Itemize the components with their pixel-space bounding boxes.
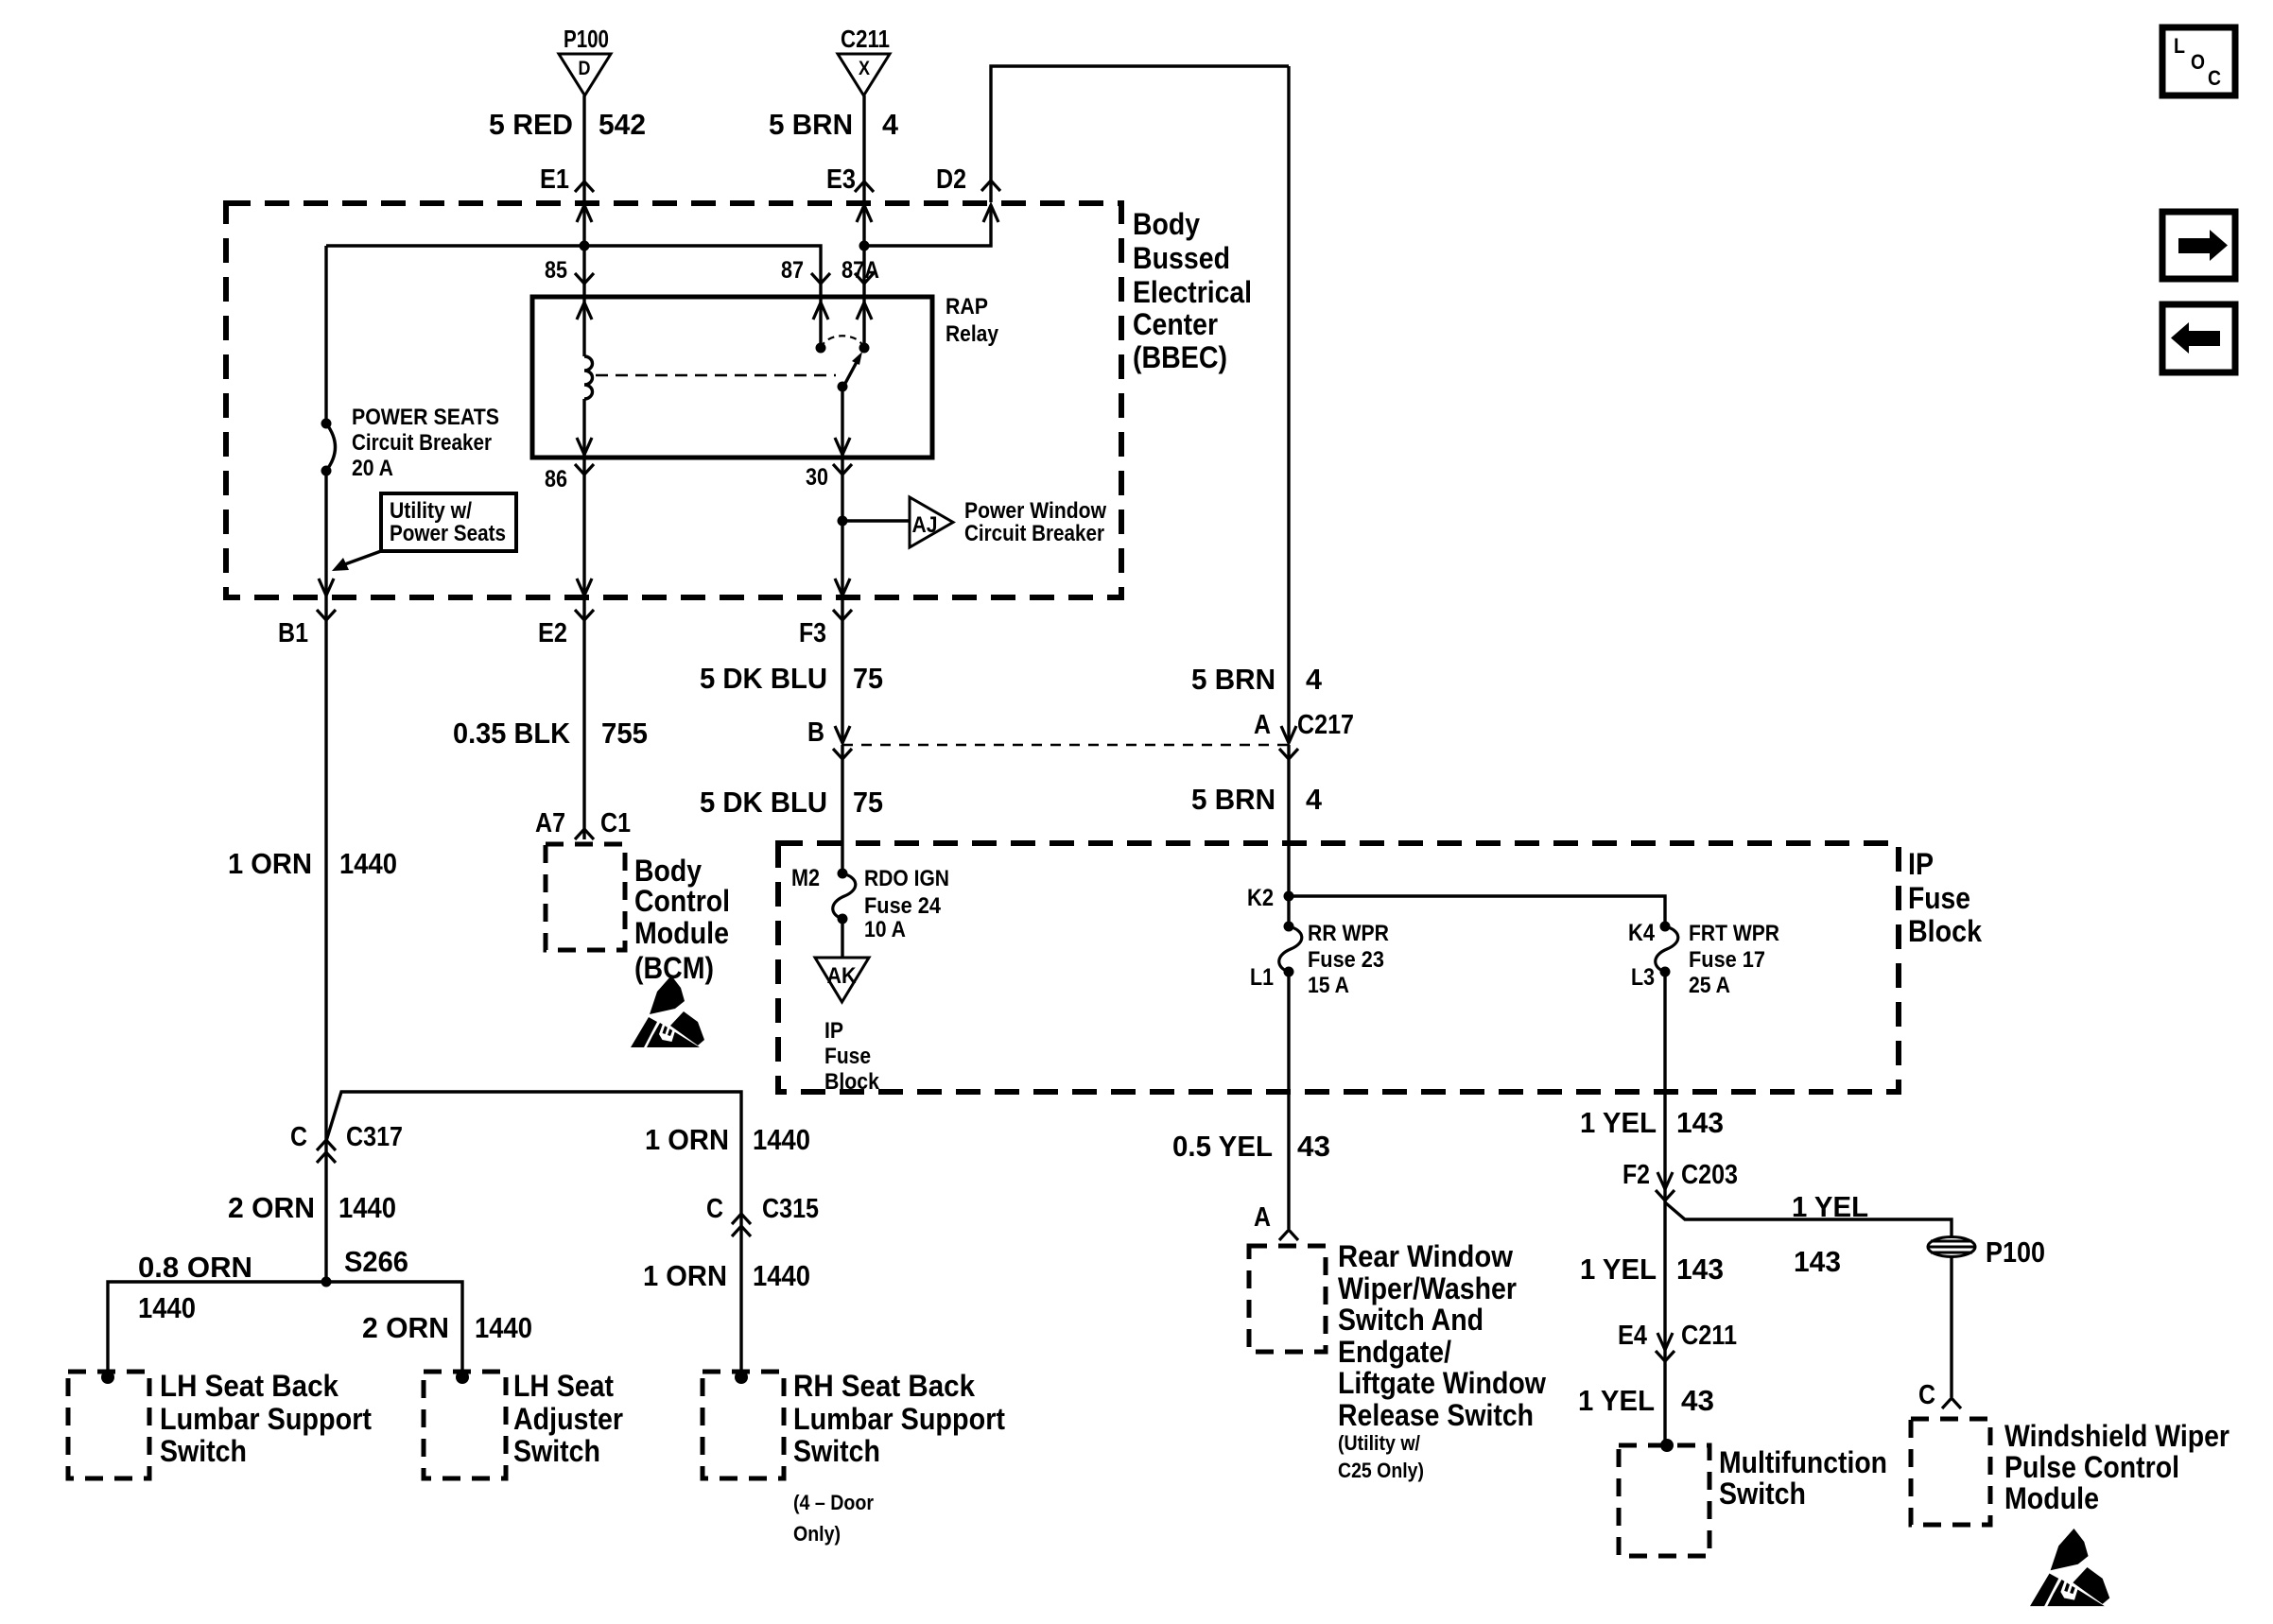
svg-text:Lumbar Support: Lumbar Support [160,1402,372,1436]
relay internal dashed link coil to arm [596,374,836,377]
wire C317 down to S266 [324,1140,327,1282]
wire B down into IP fuse block [841,745,843,873]
svg-text:RDO IGN: RDO IGN [864,866,949,891]
svg-text:C1: C1 [600,808,631,838]
svg-text:P100: P100 [564,25,609,53]
svg-text:Rear Window: Rear Window [1338,1239,1513,1273]
svg-text:C: C [1918,1380,1935,1410]
svg-text:Module: Module [634,916,729,950]
svg-text:E2: E2 [538,618,567,648]
svg-text:1 ORN: 1 ORN [645,1123,729,1156]
node junction at E1/85 [580,241,590,251]
svg-text:Module: Module [2004,1481,2099,1515]
ground stud P100 [1928,1237,1975,1257]
wire E3 down to 87A [862,203,865,297]
svg-text:C: C [2208,66,2221,90]
svg-text:E4: E4 [1618,1321,1647,1351]
svg-text:85: 85 [545,257,567,284]
svg-text:IP: IP [824,1018,843,1044]
svg-text:Only): Only) [793,1522,841,1546]
svg-text:1440: 1440 [753,1123,810,1156]
svg-text:0.35 BLK: 0.35 BLK [453,717,571,750]
svg-text:L: L [2174,34,2185,58]
svg-text:20 A: 20 A [352,456,393,481]
svg-text:LH Seat: LH Seat [513,1369,614,1403]
svg-text:Switch: Switch [1719,1477,1806,1511]
svg-text:143: 143 [1676,1106,1724,1139]
svg-text:D: D [579,58,591,79]
svg-text:43: 43 [1681,1384,1714,1417]
RH Seat Back Lumbar Support Switch box [703,1372,784,1478]
svg-text:AJ: AJ [912,512,938,538]
svg-text:25 A: 25 A [1689,973,1730,998]
wire FRT WPR fuse down to F2 [1663,972,1666,1181]
RAP relay box [532,297,932,458]
svg-text:IP: IP [1908,847,1934,881]
svg-text:C217: C217 [1297,710,1354,740]
svg-text:2 ORN: 2 ORN [228,1191,315,1224]
ESD symbol (windshield module) [2030,1529,2109,1606]
wire K2 over to K4 [1289,896,1665,926]
svg-text:Multifunction: Multifunction [1719,1445,1887,1479]
BBEC dashed box [226,203,1121,597]
wire P100 to E1 [582,95,585,202]
svg-text:K4: K4 [1628,920,1655,946]
svg-text:Bussed: Bussed [1133,241,1230,275]
svg-text:E1: E1 [540,164,569,195]
svg-text:1440: 1440 [138,1291,196,1324]
svg-text:O: O [2191,50,2205,74]
svg-text:Windshield Wiper: Windshield Wiper [2004,1419,2230,1453]
svg-text:Switch: Switch [160,1434,247,1468]
svg-text:L3: L3 [1631,964,1655,991]
svg-text:C211: C211 [841,25,890,53]
svg-text:Endgate/: Endgate/ [1338,1335,1451,1369]
svg-text:(BBEC): (BBEC) [1133,340,1227,374]
fuse FRT WPR Fuse 17 25A [1660,922,1671,932]
wire E2 down to BCM [582,597,585,839]
svg-text:K2: K2 [1247,885,1274,911]
Rear Window Wiper/Washer Switch box [1249,1246,1326,1352]
svg-text:D2: D2 [936,164,966,195]
wire S266 left to LH seat back lumbar switch [108,1282,326,1377]
svg-text:P100: P100 [1986,1235,2045,1269]
svg-text:Lumbar Support: Lumbar Support [793,1402,1005,1436]
svg-text:10 A: 10 A [864,917,906,942]
svg-text:Center: Center [1133,307,1218,341]
svg-text:Fuse: Fuse [1908,881,1970,915]
svg-text:C315: C315 [762,1194,819,1224]
svg-text:0.8 ORN: 0.8 ORN [138,1251,252,1284]
svg-text:Wiper/Washer: Wiper/Washer [1338,1271,1517,1305]
svg-text:1 ORN: 1 ORN [643,1259,727,1292]
svg-text:30: 30 [806,464,828,491]
svg-text:Switch And: Switch And [1338,1303,1484,1337]
svg-text:A: A [1254,710,1271,740]
Utility w/ Power Seats callout box [381,493,516,551]
svg-text:X: X [859,58,870,79]
svg-text:1440: 1440 [338,1191,396,1224]
svg-text:1440: 1440 [753,1259,810,1292]
svg-text:Fuse 17: Fuse 17 [1689,947,1765,973]
svg-text:C203: C203 [1681,1160,1738,1190]
wire P100 ground down to windshield module [1950,1256,1952,1397]
svg-text:1 YEL: 1 YEL [1792,1190,1868,1223]
svg-text:1 YEL: 1 YEL [1578,1384,1655,1417]
svg-text:B: B [807,717,824,748]
node junction to AJ [838,516,848,527]
svg-text:15 A: 15 A [1308,973,1349,998]
relay coil wire to bottom [582,399,585,458]
svg-text:Switch: Switch [793,1434,880,1468]
svg-text:4: 4 [882,108,899,141]
svg-text:Fuse 23: Fuse 23 [1308,947,1384,973]
wire to AJ triangle [842,519,910,522]
svg-text:Electrical: Electrical [1133,275,1252,309]
connector C211 triangle X [838,54,890,95]
Multifunction Switch box [1619,1445,1709,1556]
POWER SEATS circuit breaker symbol [321,419,332,429]
svg-text:(4 – Door: (4 – Door [793,1491,874,1514]
svg-text:87: 87 [781,257,804,284]
svg-text:5 BRN: 5 BRN [1191,663,1275,696]
svg-text:Release Switch: Release Switch [1338,1398,1534,1432]
svg-text:A: A [1254,1202,1271,1233]
svg-text:Power Window: Power Window [964,498,1106,524]
wire A down into IP fuse block [1287,745,1290,926]
wire E1 down into BBEC to pin 85 [582,203,585,297]
wire B1 down to C317 [324,597,327,1140]
svg-text:C: C [290,1122,307,1152]
svg-text:143: 143 [1676,1253,1724,1286]
relay coil [584,356,593,399]
svg-text:1440: 1440 [475,1311,532,1344]
svg-text:(Utility w/: (Utility w/ [1338,1431,1420,1455]
svg-text:4: 4 [1306,663,1323,696]
svg-text:A7: A7 [535,808,565,838]
svg-text:Switch: Switch [513,1434,600,1468]
svg-text:5 BRN: 5 BRN [769,108,853,141]
svg-text:Block: Block [1908,914,1982,948]
svg-text:Liftgate Window: Liftgate Window [1338,1366,1546,1400]
svg-text:AK: AK [827,963,858,989]
svg-text:5 RED: 5 RED [489,108,573,141]
wire branch C317 to C315 feed [326,1092,741,1214]
wire D2 up and over to right bus [991,66,1289,202]
svg-text:5 DK BLU: 5 DK BLU [700,786,827,819]
svg-text:Relay: Relay [946,321,999,347]
svg-text:86: 86 [545,466,567,492]
IP fuse block dashed box [778,843,1899,1092]
svg-text:Circuit Breaker: Circuit Breaker [352,430,492,456]
right arrow page icon [2162,212,2235,279]
node junction at E3/87A [859,241,870,251]
svg-text:75: 75 [853,662,883,695]
AJ breaker triangle [910,497,953,547]
svg-text:C211: C211 [1681,1321,1737,1351]
svg-text:1440: 1440 [339,847,397,880]
svg-text:Body: Body [634,854,702,888]
relay switch arm [842,362,857,389]
wire right bus down to C217 A [1287,66,1290,743]
wire C315 down to RH switch [739,1214,742,1377]
svg-text:L1: L1 [1250,964,1274,991]
relay coil wire pin 85 to 86 [582,297,585,356]
wire F2 down to multifunction switch [1663,1181,1666,1445]
svg-text:5 DK BLU: 5 DK BLU [700,662,827,695]
svg-text:C317: C317 [346,1122,403,1152]
svg-text:Power Seats: Power Seats [390,521,506,546]
svg-text:Circuit Breaker: Circuit Breaker [964,521,1104,546]
svg-text:5 BRN: 5 BRN [1191,783,1275,816]
wire F3 down to B [841,597,843,743]
svg-text:Utility w/: Utility w/ [390,498,472,524]
POWER SEATS circuit breaker wire [324,246,327,423]
svg-text:M2: M2 [791,865,820,891]
svg-text:RH Seat Back: RH Seat Back [793,1369,975,1403]
svg-text:RR WPR: RR WPR [1308,921,1389,946]
relay contact 87 stub [819,297,822,348]
svg-text:Fuse 24: Fuse 24 [864,893,942,919]
wire S266 right to LH seat adjuster switch [326,1282,462,1377]
wire RR WPR fuse down to rear window switch [1287,972,1290,1229]
svg-text:Pulse Control: Pulse Control [2004,1450,2179,1484]
svg-text:F2: F2 [1622,1160,1650,1190]
svg-text:Body: Body [1133,207,1200,241]
svg-text:542: 542 [599,108,646,141]
BCM dashed box [546,844,625,950]
wire 86 down to BBEC bottom [582,458,585,597]
wire C211 to E3 [862,95,865,202]
LOC page icon box [2162,27,2235,95]
svg-text:755: 755 [601,717,648,750]
svg-text:C: C [706,1194,723,1224]
relay dashed travel arc [821,336,864,348]
relay contact 87A stub [862,297,865,348]
svg-text:POWER SEATS: POWER SEATS [352,405,499,430]
svg-text:1 YEL: 1 YEL [1580,1106,1657,1139]
LH Seat Adjuster Switch box [424,1372,506,1478]
wire fuse to AK triangle [841,919,843,958]
svg-text:Fuse: Fuse [824,1044,871,1069]
svg-text:E3: E3 [826,164,856,195]
svg-text:FRT WPR: FRT WPR [1689,921,1779,946]
svg-text:4: 4 [1306,783,1323,816]
svg-text:LH Seat Back: LH Seat Back [160,1369,338,1403]
svg-text:43: 43 [1297,1130,1330,1163]
AK triangle (IP fuse block feed) [815,958,869,1002]
svg-text:1 YEL: 1 YEL [1580,1253,1657,1286]
ESD symbol (BCM) [631,976,704,1047]
node junction K2 [1284,891,1294,902]
connector P100 triangle D [559,54,611,95]
svg-text:0.5 YEL: 0.5 YEL [1172,1130,1273,1163]
svg-text:F3: F3 [799,618,826,648]
wire breaker down to B1 [324,471,327,597]
svg-text:75: 75 [853,786,883,819]
svg-text:S266: S266 [344,1245,408,1278]
svg-text:Block: Block [824,1069,880,1095]
left arrow page icon [2162,304,2235,372]
svg-text:1 ORN: 1 ORN [228,847,312,880]
LH Seat Back Lumbar Support Switch box [68,1372,149,1478]
fuse RDO IGN Fuse 24 10A [838,869,848,879]
wire junction E3 to D2 riser [864,205,991,246]
svg-text:Adjuster: Adjuster [513,1402,623,1436]
svg-text:2 ORN: 2 ORN [362,1311,449,1344]
wire 30 down to BBEC bottom [841,458,843,597]
wire branch F2 to P100 ground [1665,1202,1952,1237]
svg-text:143: 143 [1794,1245,1841,1278]
connector C217 dashed link B to A [842,744,1289,747]
callout arrow [342,551,381,565]
relay pole wire to pin 30 [841,387,843,458]
svg-text:Control: Control [634,884,730,918]
svg-text:B1: B1 [278,618,308,648]
svg-text:C25 Only): C25 Only) [1338,1459,1424,1482]
fuse RR WPR Fuse 23 15A [1284,922,1294,932]
wire bus to breaker (left) and to 87 [326,246,821,297]
svg-text:RAP: RAP [946,294,988,320]
Windshield Wiper Pulse Control Module box [1911,1419,1990,1525]
